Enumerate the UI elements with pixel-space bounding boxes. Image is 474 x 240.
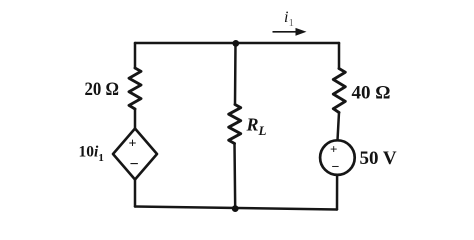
wire left bottom vertical [134, 180, 137, 207]
svg-text:40 Ω: 40 Ω [352, 83, 391, 104]
svg-text:50 V: 50 V [360, 148, 397, 169]
svg-text:i1: i1 [284, 9, 294, 29]
wire top horizontal [135, 42, 339, 45]
resistor 40 Ohm [333, 69, 345, 113]
svg-text:+: + [330, 142, 337, 157]
wire middle top vertical [234, 43, 237, 105]
dependent source 10i1 (diamond) [113, 129, 157, 180]
wire middle bottom vertical [233, 144, 236, 209]
wire left middle (resistor to source) [134, 109, 137, 129]
wire right top vertical [338, 43, 341, 69]
svg-text:+: + [129, 137, 137, 152]
voltage source 50V (circle) [320, 140, 355, 175]
svg-text:−: − [332, 160, 340, 175]
node bottom junction [232, 205, 239, 212]
wire left top vertical [134, 43, 137, 68]
svg-text:10i1: 10i1 [79, 144, 104, 165]
svg-text:−: − [130, 156, 139, 173]
wire bottom horizontal [135, 207, 337, 210]
resistor 20 Ohm [129, 68, 141, 109]
wire right middle (resistor to source) [338, 113, 340, 141]
node top junction [232, 40, 239, 47]
wire right bottom vertical [336, 175, 339, 210]
svg-text:20 Ω: 20 Ω [85, 79, 120, 100]
resistor RL [229, 105, 241, 144]
svg-text:RL: RL [246, 115, 267, 139]
current arrow i1 [273, 28, 307, 36]
